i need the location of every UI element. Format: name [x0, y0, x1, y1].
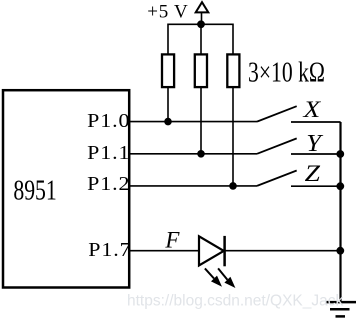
- wire switch X right contact: [291, 121, 341, 123]
- wire stem from power triangle to rail: [201, 12, 203, 24]
- svg-text:P1.7: P1.7: [88, 238, 131, 261]
- wire right bus: [339, 122, 341, 301]
- svg-text:https://blog.csdn.net/QXK_Jack: https://blog.csdn.net/QXK_Jack: [127, 292, 344, 309]
- resistor R2 body: [195, 54, 207, 87]
- wire R1 to P1.0 node: [167, 87, 169, 122]
- wire R2 to P1.1 node: [200, 87, 202, 154]
- resistor R3 body: [227, 54, 239, 87]
- ground bar 3: [336, 315, 346, 318]
- LED light arrow 1: [205, 268, 222, 286]
- junction dot node Z/right bus: [336, 182, 344, 190]
- wire P1.7 to LED anode: [130, 250, 199, 252]
- wire P1.1 to switch Y: [130, 153, 257, 155]
- wire P1.2 to switch Z: [130, 185, 257, 187]
- junction dot on +5V rail: [197, 20, 205, 28]
- svg-text:8951: 8951: [13, 176, 56, 206]
- junction dot node P1.0/R1: [164, 118, 172, 126]
- switch X arm: [257, 106, 297, 121]
- switch Y arm: [257, 138, 297, 153]
- junction dot node LED/right bus: [336, 247, 344, 255]
- power symbol triangle: [196, 2, 209, 12]
- svg-text:3×10 kΩ: 3×10 kΩ: [248, 58, 325, 88]
- wire +5V rail: [168, 24, 233, 54]
- wire switch Z right contact: [291, 185, 341, 187]
- resistor R1 body: [162, 54, 174, 87]
- svg-text:P1.0: P1.0: [87, 109, 130, 132]
- svg-text:Z: Z: [305, 161, 321, 186]
- wire P1.0 to switch X: [130, 121, 257, 123]
- svg-text:P1.1: P1.1: [87, 141, 130, 164]
- svg-text:X: X: [302, 96, 321, 123]
- wire rail to R2 top: [200, 24, 202, 54]
- switch Z arm: [257, 171, 297, 186]
- LED light arrow 2: [218, 268, 235, 288]
- svg-text:P1.2: P1.2: [87, 172, 130, 195]
- junction dot node P1.1/R2: [197, 150, 205, 158]
- wire LED cathode to right bus: [225, 250, 341, 252]
- wire R3 to P1.2 node: [232, 87, 234, 186]
- junction dot node P1.2/R3: [229, 182, 237, 190]
- IC U1 8951 box: [3, 90, 129, 287]
- svg-text:F: F: [164, 227, 180, 252]
- ground bar 1: [326, 301, 356, 304]
- junction dot node Y/right bus: [336, 150, 344, 158]
- svg-text:+5 V: +5 V: [147, 2, 188, 23]
- ground bar 2: [330, 308, 350, 311]
- LED D1 triangle: [199, 236, 224, 265]
- LED D1 cathode bar: [223, 236, 226, 266]
- wire switch Y right contact: [291, 153, 341, 155]
